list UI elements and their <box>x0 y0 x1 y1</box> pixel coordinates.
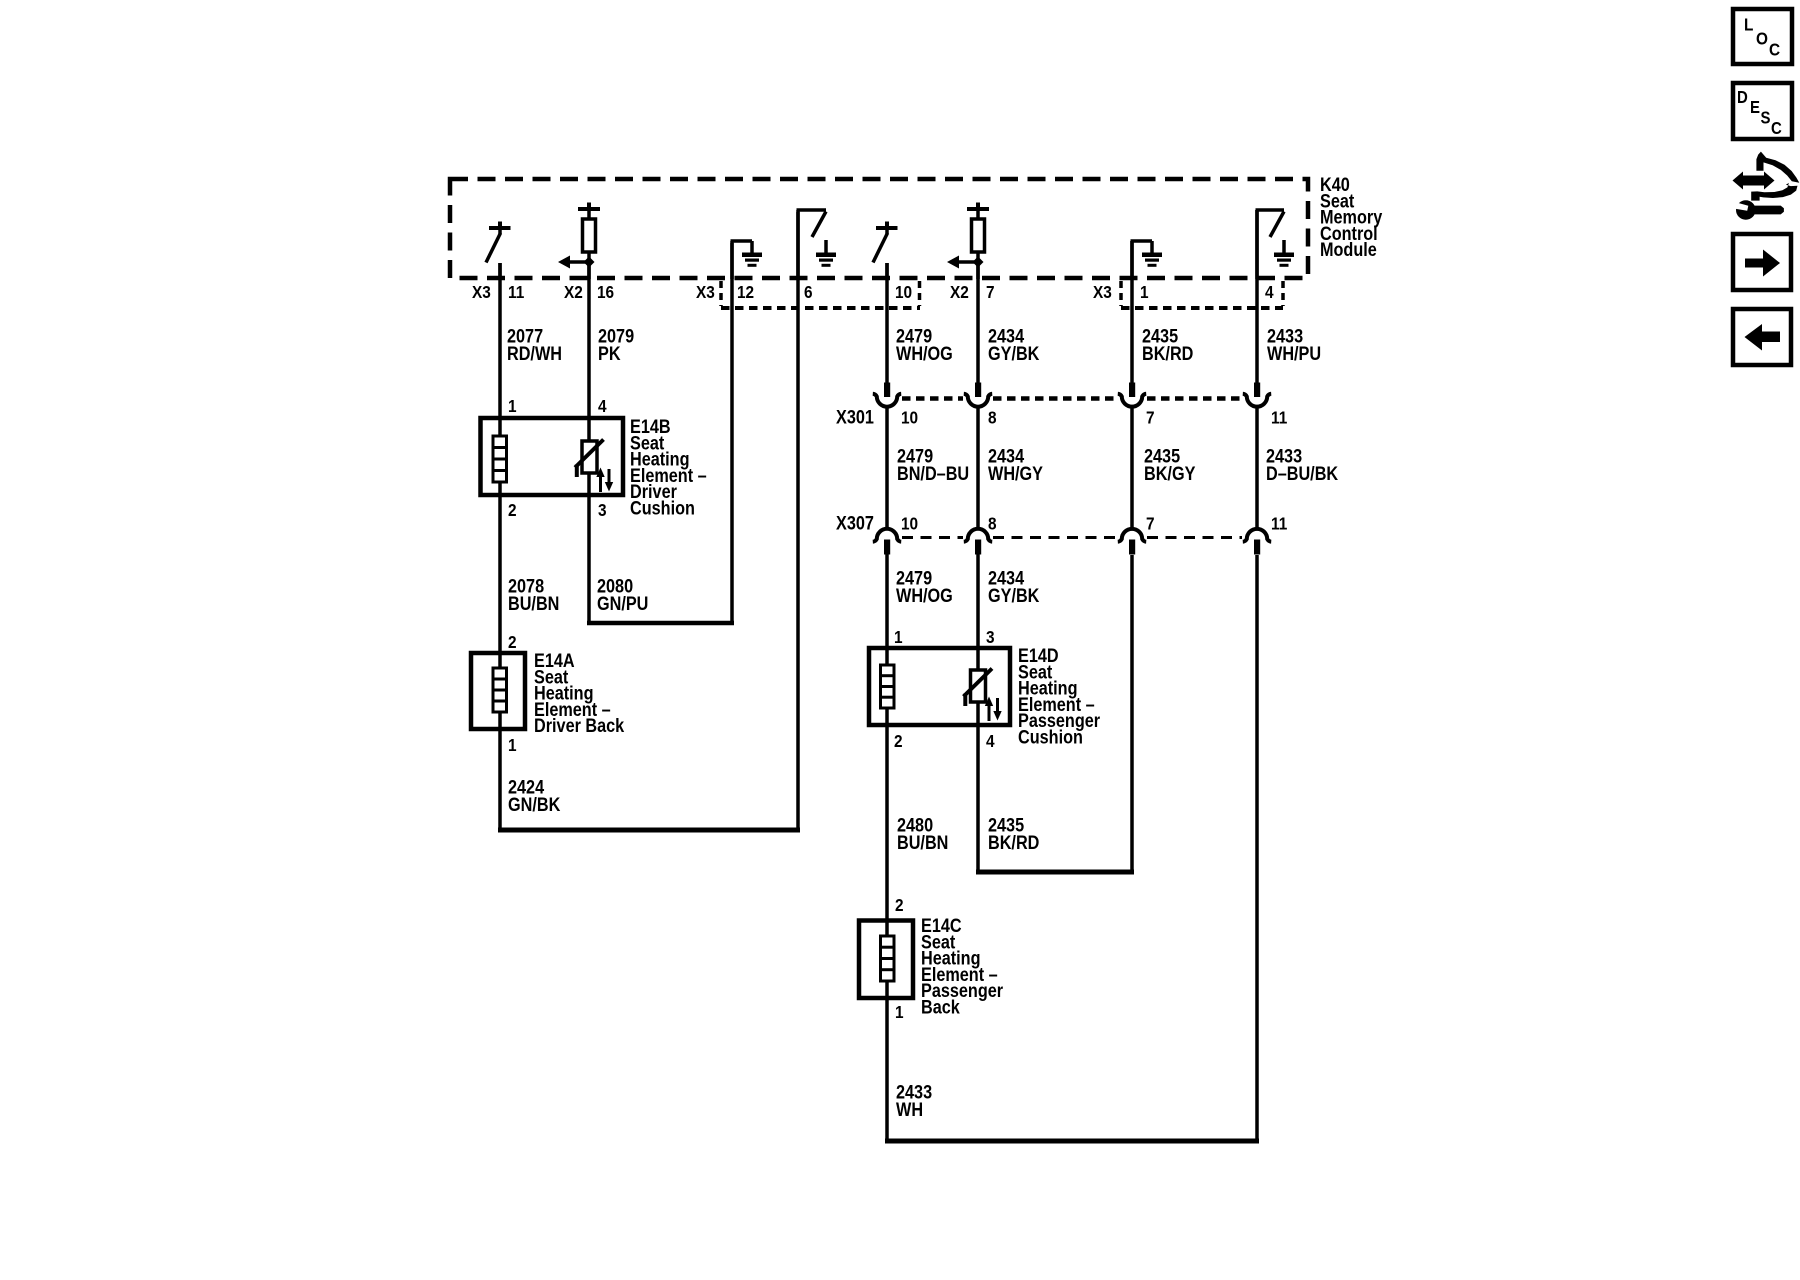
svg-text:D: D <box>1737 88 1748 107</box>
switch S2 to ground (module pin 6) <box>797 210 837 279</box>
svg-text:X301: X301 <box>836 406 874 427</box>
E14D thermistor <box>964 669 993 707</box>
svg-text:10: 10 <box>901 513 918 533</box>
X307 terminal 8 <box>964 529 992 555</box>
svg-text:X2: X2 <box>950 282 969 302</box>
svg-text:1: 1 <box>895 1002 904 1022</box>
svg-text:8: 8 <box>988 513 997 533</box>
svg-text:2435BK/RD: 2435BK/RD <box>1142 325 1194 364</box>
svg-text:2079PK: 2079PK <box>598 325 634 364</box>
svg-text:2480BU/BN: 2480BU/BN <box>897 814 948 853</box>
wire 2434 middle (X301-8 to X307-8) <box>976 408 980 529</box>
X301 terminal 8 <box>964 383 992 407</box>
double arrow <box>1733 172 1775 190</box>
svg-text:4: 4 <box>1265 282 1274 302</box>
svg-text:4: 4 <box>598 396 607 416</box>
svg-text:2: 2 <box>894 731 903 751</box>
wrench <box>1736 200 1756 220</box>
svg-text:2479BN/D–BU: 2479BN/D–BU <box>897 445 969 484</box>
svg-text:2: 2 <box>895 895 904 915</box>
wire 2480 (E14D pin 2 to E14C pin 2) <box>885 707 889 937</box>
LOC icon <box>1733 9 1792 64</box>
E14A heater element <box>493 668 507 712</box>
svg-text:3: 3 <box>986 627 995 647</box>
svg-text:2435BK/RD: 2435BK/RD <box>988 814 1040 853</box>
wire 2424 (E14A pin 1 to module pin 6) <box>498 212 800 832</box>
wire 2078 (E14B pin 2 to E14A pin 2) <box>498 481 502 669</box>
X307 terminal 11 <box>1243 529 1271 555</box>
E14D heater element <box>881 665 895 708</box>
svg-text:O: O <box>1756 28 1768 48</box>
wire 2435 upper (pin X3-1 to X301-7) <box>1130 241 1134 384</box>
heating element E14C box <box>859 921 913 999</box>
wire 2077 (pin 11 to E14B pin 1) <box>498 263 502 437</box>
svg-text:2434GY/BK: 2434GY/BK <box>988 567 1040 606</box>
svg-text:2434GY/BK: 2434GY/BK <box>988 325 1040 364</box>
svg-text:11: 11 <box>508 282 524 302</box>
svg-text:2: 2 <box>508 632 517 652</box>
svg-text:X3: X3 <box>1093 282 1112 302</box>
wire 2434 upper (pin X2-7 to X301-8) <box>976 262 980 384</box>
connector X3 dashed box (pins 12, 6, 10) <box>721 281 920 308</box>
svg-text:10: 10 <box>901 407 918 427</box>
connector X301 dashed line <box>902 396 1242 401</box>
wire 2433 (E14C pin 1 to X307-11) <box>885 555 1259 1143</box>
wire 2435 (E14D pin 4 to X307-7) <box>976 555 1134 874</box>
back arrow icon <box>1733 309 1791 365</box>
svg-text:E14CSeatHeatingElement –Passen: E14CSeatHeatingElement –PassengerBack <box>921 915 1003 1018</box>
heating element E14B box <box>481 418 624 495</box>
wire 2434 lower (X307-8 to E14D pin 3) <box>976 554 980 671</box>
svg-text:2080GN/PU: 2080GN/PU <box>597 575 648 614</box>
connector X3 dashed box (pins 1, 4) <box>1121 281 1283 308</box>
resistor R2 (module pin X2-7) <box>947 203 989 280</box>
svg-text:2435BK/GY: 2435BK/GY <box>1144 445 1196 484</box>
harness repair icon <box>1732 152 1799 220</box>
module pin labels <box>472 282 1274 302</box>
switch S4 to ground (module pin 4) <box>1256 210 1295 279</box>
svg-text:4: 4 <box>986 731 995 751</box>
svg-text:7: 7 <box>986 282 995 302</box>
E14D temperature arrows <box>985 697 1002 722</box>
svg-text:X3: X3 <box>472 282 491 302</box>
resistor R1 (module pin X2-16) <box>558 203 600 280</box>
svg-text:1: 1 <box>508 396 517 416</box>
svg-text:2479WH/OG: 2479WH/OG <box>896 567 953 606</box>
X307 terminal 7 <box>1118 529 1146 555</box>
svg-text:E14BSeatHeatingElement –Driver: E14BSeatHeatingElement –DriverCushion <box>630 416 707 519</box>
svg-text:S: S <box>1761 108 1771 127</box>
svg-text:X2: X2 <box>564 282 583 302</box>
wire 2479 upper (pin 10 to X301-10) <box>885 263 889 384</box>
K40 module dashed box <box>450 179 1308 278</box>
svg-text:2424GN/BK: 2424GN/BK <box>508 776 561 815</box>
wire 2080 (E14B pin 3 to module pin X3-12) <box>587 243 734 625</box>
svg-text:2433WH/PU: 2433WH/PU <box>1267 325 1321 364</box>
bent arrow top band <box>1756 152 1799 183</box>
heating element E14A box <box>471 653 525 729</box>
svg-text:16: 16 <box>597 282 614 302</box>
forward arrow icon <box>1733 234 1791 290</box>
svg-text:12: 12 <box>737 282 754 302</box>
wire 2479 middle (X301-10 to X307-10) <box>885 408 889 529</box>
ground G2 inside module (pin X3-1) <box>1131 241 1163 279</box>
E14B thermistor <box>575 440 604 478</box>
svg-text:1: 1 <box>508 735 517 755</box>
wire 2079 (pin 16 to E14B pin 4) <box>587 262 591 442</box>
svg-text:7: 7 <box>1146 407 1155 427</box>
ground G1 inside module (pin X3-12) <box>731 241 763 279</box>
svg-text:E14ASeatHeatingElement –Driver: E14ASeatHeatingElement –Driver Back <box>534 650 624 737</box>
wire 2479 lower (X307-10 to E14D pin 1) <box>885 554 889 666</box>
svg-text:L: L <box>1744 14 1753 34</box>
svg-text:X307: X307 <box>836 512 874 533</box>
svg-text:2078BU/BN: 2078BU/BN <box>508 575 559 614</box>
svg-text:C: C <box>1771 119 1782 138</box>
svg-text:11: 11 <box>1271 513 1287 533</box>
wire 2433 middle (X301-11 to X307-11) <box>1255 408 1259 529</box>
wire 2433 upper (pin 4 to X301-11) <box>1255 210 1259 384</box>
X301 terminal 11 <box>1243 383 1271 407</box>
svg-text:3: 3 <box>598 500 607 520</box>
wire 2435 middle (X301-7 to X307-7) <box>1130 408 1134 529</box>
E14B temperature arrows <box>596 468 613 493</box>
svg-text:E: E <box>1750 98 1760 117</box>
svg-text:10: 10 <box>895 282 912 302</box>
svg-text:11: 11 <box>1271 407 1287 427</box>
heating element E14D box <box>869 648 1010 725</box>
X301 terminal 10 <box>873 383 901 407</box>
svg-text:2479WH/OG: 2479WH/OG <box>896 325 953 364</box>
svg-text:1: 1 <box>894 627 903 647</box>
svg-text:C: C <box>1769 39 1780 59</box>
svg-text:K40SeatMemoryControlModule: K40SeatMemoryControlModule <box>1320 174 1382 261</box>
E14C heater element <box>881 936 895 981</box>
svg-text:X3: X3 <box>696 282 715 302</box>
svg-text:1: 1 <box>1140 282 1149 302</box>
svg-text:2077RD/WH: 2077RD/WH <box>507 325 562 364</box>
svg-text:8: 8 <box>988 407 997 427</box>
connector X307 dashed line <box>902 536 1242 539</box>
svg-text:6: 6 <box>804 282 813 302</box>
svg-text:2: 2 <box>508 500 517 520</box>
svg-text:2434WH/GY: 2434WH/GY <box>988 445 1043 484</box>
switch S1 (module pin X3-11) <box>486 222 511 280</box>
switch S3 (module pin 10) <box>873 222 898 280</box>
X301 terminal 7 <box>1118 383 1146 407</box>
svg-text:7: 7 <box>1146 513 1155 533</box>
DESC icon <box>1733 83 1792 139</box>
svg-text:E14DSeatHeatingElement –Passen: E14DSeatHeatingElement –PassengerCushion <box>1018 645 1100 748</box>
svg-text:2433WH: 2433WH <box>896 1081 932 1120</box>
E14B heater element <box>493 436 507 482</box>
bent arrow bottom band <box>1751 183 1797 201</box>
X307 terminal 10 <box>873 529 901 555</box>
svg-text:2433D–BU/BK: 2433D–BU/BK <box>1266 445 1338 484</box>
